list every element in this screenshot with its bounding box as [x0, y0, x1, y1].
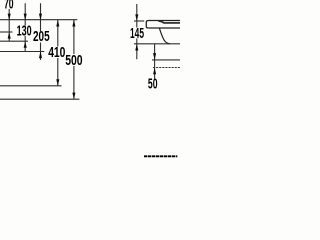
wire: dim 130 shaft [24, 3, 26, 51]
floor dashed line [144, 155, 177, 157]
arrow up at D [39, 52, 42, 59]
wire: dim 70 shaft [8, 9, 10, 41]
wire: basin bottom datum L1 [134, 43, 180, 45]
arrow down at L2 (50 top) [153, 53, 156, 60]
wire: reference line A (rim level) [0, 19, 77, 21]
arrow down at F [72, 93, 75, 100]
arrow down at A x25 [24, 14, 27, 21]
wire: tick above basin (145 top) [134, 20, 144, 22]
basin inner rim line [159, 21, 181, 23]
wire: dim 50 shaft [154, 44, 156, 79]
svg-text:410: 410 [48, 45, 65, 61]
wire: dim 145 shaft [136, 4, 138, 59]
svg-text:50: 50 [148, 77, 158, 93]
arrow down at A x9 [8, 14, 11, 21]
arrow down at E [56, 79, 59, 86]
wire: level line C (130) [0, 40, 28, 42]
wire: level line D (205) [0, 51, 44, 53]
arrow down at tick (145 top) [135, 14, 138, 21]
wire: dim 410 shaft [57, 20, 59, 86]
svg-text:205: 205 [33, 29, 50, 45]
arrow up at B [8, 32, 11, 39]
basin slab outline (side view) [146, 21, 180, 29]
svg-text:70: 70 [4, 0, 14, 13]
technical dimension drawing of wall-hung basin, side view [0, 0, 180, 163]
wire: level line B (70) [0, 31, 13, 33]
arrow up at A (410) [56, 20, 59, 27]
wire: level L2 (50 top) [152, 59, 180, 61]
wire: level L3 (50 bottom, dashed) [153, 67, 180, 69]
arrow up at L1 (145 bottom) [135, 44, 138, 51]
arrow up at L3 (50 bottom) [153, 68, 156, 75]
wire: dim 205 shaft [40, 3, 42, 60]
arrow up at C [24, 41, 27, 48]
arrow down at A x40 [39, 14, 42, 21]
wire: level line F (500) [0, 98, 79, 100]
svg-text:130: 130 [17, 23, 32, 39]
basin bowl curve [159, 28, 169, 44]
arrow up at A (500) [72, 20, 75, 27]
wire: level line E (410) [0, 85, 62, 87]
svg-text:500: 500 [65, 53, 82, 69]
wire: dim 500 shaft [73, 20, 75, 100]
